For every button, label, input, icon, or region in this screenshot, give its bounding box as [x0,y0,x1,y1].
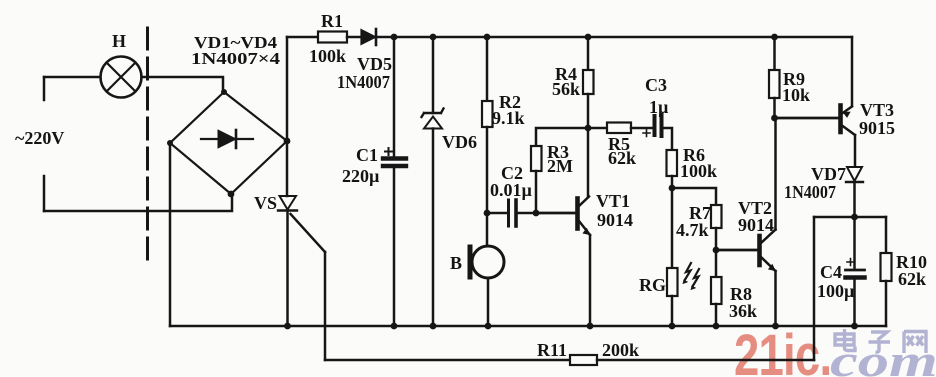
node RG ground [669,323,676,330]
wire VD7 to C4 node [853,182,856,217]
wire AC bottom to bridge [44,196,232,211]
capacitor C4 [846,259,865,278]
wire lamp to bridge top [142,77,224,92]
wire C3 to R6 [664,128,673,150]
svg-text:VT3: VT3 [860,100,894,120]
node VT2 emitter ground [772,323,779,330]
lamp H [101,57,142,98]
resistor R9 [769,70,780,98]
capacitor C1 [383,148,406,166]
node C4 ground [851,323,858,330]
wire C2 left lead [487,212,507,215]
svg-text:220µ: 220µ [342,166,380,186]
svg-text:100k: 100k [680,161,717,181]
node C2 left [484,210,491,217]
svg-text:C3: C3 [645,75,667,95]
node VD7 C4 [851,214,858,221]
node top rail VD6 [430,34,437,41]
wire R5 to C3 [631,127,652,130]
wire R10 bottom lead [885,281,888,326]
wire VT3 collector to VD7 [854,135,857,166]
wire top rail main [376,36,852,39]
wire VS gate down [324,252,327,360]
microphone B [470,246,504,278]
svg-text:R1: R1 [321,11,343,31]
node VT1 emitter ground [587,323,594,330]
node VD6 ground [430,323,437,330]
node R6 bottom [669,185,676,192]
wire R4 to VT1 collector [587,94,590,196]
wire right vertex vertical (top rail tap to VS anode) [286,37,289,196]
wire VT2 base lead [716,249,758,252]
svg-text:VD5: VD5 [357,54,392,74]
wire AC top to lamp [44,76,100,79]
svg-text:0.01µ: 0.01µ [490,180,533,200]
wire R6 bottom to RG [671,176,674,268]
wire R7 to R8 node [715,228,718,277]
svg-text:R11: R11 [537,340,567,360]
node top rail C1 [391,34,398,41]
svg-text:9.1k: 9.1k [492,108,525,128]
node top rail R2 [484,34,491,41]
resistor R11 [570,355,597,365]
node VT2 base [713,247,720,254]
wire VD6 branch bottom [432,129,435,327]
wire R8 to ground [715,304,718,326]
svg-text:100µ: 100µ [817,281,855,301]
svg-text:C4: C4 [820,262,842,282]
svg-text:1N4007: 1N4007 [337,72,390,92]
resistor R7 [711,205,722,228]
wire C1 branch top [393,37,396,156]
svg-text:9015: 9015 [859,118,895,138]
wire C2 right lead [518,212,537,215]
node bridge bottom vertex [228,191,235,198]
svg-text:36k: 36k [729,301,757,321]
svg-text:C1: C1 [356,145,378,165]
wire VS gate diagonal [291,214,326,252]
diode VD5 [361,29,376,45]
node top rail R9 [771,34,778,41]
svg-text:com: com [830,335,936,377]
svg-text:100k: 100k [309,46,346,66]
wire R3 bottom to base node [535,171,538,213]
node mic ground [485,323,492,330]
wire bottom rail [170,325,886,328]
svg-text:56k: 56k [552,79,580,99]
wire C4 top lead [853,217,856,269]
wire top rail left segment [287,36,318,39]
diode VD7 [846,167,863,182]
svg-text:VD6: VD6 [442,132,477,152]
wire R6 node to R7 [672,188,716,205]
photoresistor RG [667,263,699,296]
wire VD6 branch top [432,37,435,113]
svg-text:4.7k: 4.7k [676,220,709,240]
node top rail R4 [585,34,592,41]
wire R2 branch top [486,37,489,101]
thyristor VS [278,196,297,211]
capacitor C3 [643,115,662,137]
node bridge left vertex [167,140,173,146]
svg-text:2M: 2M [547,156,573,176]
resistor R5 [607,123,631,134]
resistor R10 [881,253,892,281]
capacitor C2 [509,200,517,226]
wire collector bus to R5 [588,127,607,130]
zener diode VD6 [422,109,444,129]
wire left vertex down to ground rail [169,143,172,326]
wire R11 right [597,359,814,362]
wire VT1 emitter to ground [589,235,592,326]
wire VT3 base lead [775,117,840,120]
wire VT1 base lead [536,212,576,215]
wire R4 branch top [587,37,590,70]
node VT1 base [533,210,540,217]
resistor R8 [711,277,722,304]
wire VT2 collector up [774,118,777,230]
node C1 ground [391,323,398,330]
svg-text:H: H [112,31,126,51]
transistor VT2 [760,230,776,272]
node bridge top vertex [221,89,227,95]
wire R2 to C2 node [486,127,489,213]
svg-text:62k: 62k [608,148,636,168]
dashed boundary line [146,28,149,264]
wire RG to ground [671,296,674,326]
wire R11 left [325,359,570,362]
svg-text:62k: 62k [898,269,926,289]
svg-text:VT1: VT1 [596,191,630,211]
svg-text:1N4007: 1N4007 [784,182,836,202]
wire node to mic B [486,213,489,246]
wire R1 to VD5 [347,36,361,39]
bridge rectifier VD1~VD4 [170,92,287,194]
svg-text:200k: 200k [602,340,639,360]
node bridge right vertex [284,138,291,145]
resistor R2 [482,101,493,127]
svg-text:9014: 9014 [597,210,633,230]
svg-text:VD7: VD7 [811,164,846,184]
wire VS cathode to ground [286,211,289,327]
wire R9 bottom [773,98,776,118]
svg-text:9014: 9014 [738,215,774,235]
svg-text:B: B [450,253,462,273]
resistor R6 [667,150,678,176]
svg-text:VS: VS [254,193,277,213]
wire R9 top [773,37,776,70]
node collector bus [585,125,592,132]
wire mic B to ground [487,278,490,326]
wire C4 bottom lead [853,279,856,326]
wire R3 top corner [536,128,588,146]
svg-text:~220V: ~220V [15,128,64,148]
svg-text:RG: RG [639,275,666,295]
wire R11 up to C4 bus [813,217,816,360]
wire VT2 emitter to ground [774,271,777,326]
wire C4 R10 top bus [814,216,886,219]
resistor R3 [531,146,542,171]
node R8 ground [713,323,720,330]
watermark dian zi wang [835,329,926,353]
transistor VT1 [578,197,591,236]
node VT3 base net [771,115,778,122]
transistor VT3 [841,106,856,136]
resistor R4 [583,70,594,94]
wire AC top lead [43,77,46,100]
svg-text:10k: 10k [782,85,810,105]
wire C1 branch bottom [393,168,396,326]
wire top rail corner down to VT3 emitter [851,37,854,106]
svg-text:1µ: 1µ [649,97,669,117]
wire AC bottom lead [43,176,46,211]
wire R10 top lead [885,217,888,253]
svg-text:21ic.: 21ic. [734,324,831,377]
svg-text:1N4007×4: 1N4007×4 [191,49,280,68]
node VS ground [284,323,291,330]
resistor R1 [318,32,347,43]
